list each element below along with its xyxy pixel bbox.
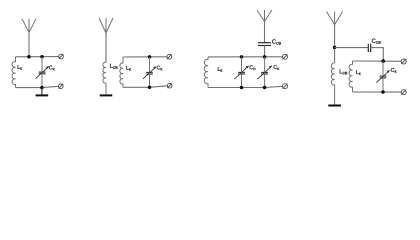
coupling coil Lsv (c4) — [331, 63, 334, 105]
inductor Lk (c2) — [120, 57, 123, 87]
wire: top rail (c1) — [16, 56, 59, 58]
antenna W3 (circuit 3) — [257, 10, 272, 22]
inductor Lk (c3) — [204, 57, 208, 88]
wire: antenna lead down (c4) — [334, 25, 336, 64]
coupling capacitor Csv (c3) — [258, 43, 271, 46]
label Cp (c3) — [250, 65, 256, 70]
output terminal bottom (c2) — [167, 83, 172, 88]
node: Cp top junction (c3) — [240, 55, 244, 59]
node: Ck bottom / ground junction (c1) — [40, 86, 44, 90]
variable capacitor Ck (c4) — [376, 70, 389, 82]
output terminal bottom (c1) — [58, 84, 63, 89]
node: Ck top junction (c2) — [148, 55, 152, 59]
coupling coil Lsv (c2) — [103, 62, 106, 94]
output terminal top (c2) — [167, 54, 172, 59]
node: Ck bottom junction (c4) — [381, 90, 385, 94]
wire: Ck bottom lead (c3) — [264, 74, 266, 88]
ground (c1) — [36, 88, 49, 96]
node: Ck top junction (c3) — [263, 55, 267, 59]
label Ck (c1) — [49, 66, 55, 71]
wire: Cp bottom lead (c3) — [241, 74, 243, 88]
wire: bottom rail to output (c3) — [265, 86, 283, 87]
wire: bottom rail (c3) — [208, 87, 265, 89]
wire: top rail (c3) — [208, 56, 283, 58]
wire: top rail (c4) — [353, 60, 402, 62]
wire: Csv to corner (c4) — [371, 47, 384, 49]
output terminal top (c1) — [59, 54, 64, 59]
variable capacitor Ck (c3) — [257, 66, 271, 79]
coupling capacitor Csv (c4) — [368, 44, 370, 52]
wire: antenna lead to Csv (c3) — [264, 22, 266, 43]
wire: Ck bottom lead (c4) — [382, 78, 384, 92]
label Csv (c4) — [372, 39, 381, 44]
wire: Csv leg down to top rail (c4) — [382, 48, 384, 61]
inductor Lk (c1) — [12, 57, 16, 88]
inductor Lk (c4) — [349, 61, 353, 92]
output terminal top (c4) — [401, 59, 406, 64]
wire: bottom rail (c4) — [353, 91, 402, 93]
wire: Ck top lead (c2) — [149, 57, 151, 72]
antenna W1 (circuit 1) — [22, 19, 36, 33]
wire: Ck top lead (c3) — [264, 57, 266, 72]
node: Ck top / Csv junction (c4) — [381, 59, 385, 63]
label Lsv (c2) — [110, 64, 117, 69]
ground (c4) — [328, 104, 341, 107]
wire: Ck top lead (c4) — [382, 61, 384, 76]
antenna W4 (circuit 4) — [327, 12, 343, 25]
output terminal bottom (c4) — [401, 90, 406, 95]
label Lk (c3) — [218, 67, 223, 72]
node: Ck top junction (c1) — [40, 55, 44, 59]
wire: bottom rail to output (c2) — [150, 86, 168, 88]
label Ck (c2) — [157, 66, 163, 71]
label Lk (c4) — [356, 70, 361, 75]
wire: Ck bottom lead (c1) — [41, 74, 43, 88]
wire: Csv to top rail (c3) — [264, 46, 266, 58]
wire: bottom rail to output (c1) — [42, 86, 59, 87]
variable capacitor Cp (c3) — [234, 66, 248, 79]
wire: Cp top lead (c3) — [241, 57, 243, 72]
wire: bottom rail left (c1) — [16, 87, 43, 89]
output terminal top (c3) — [283, 54, 288, 59]
output terminal bottom (c3) — [283, 84, 288, 89]
node: antenna junction on top rail (c1) — [27, 55, 31, 59]
antenna W2 (circuit 2) — [99, 18, 113, 33]
wire: antenna lead to Lsv (c2) — [105, 33, 107, 62]
node: Csv tap junction (c4) — [333, 46, 337, 50]
wire: bottom rail (c2) — [123, 86, 150, 88]
label Lsv (c4) — [340, 69, 347, 74]
wire: top rail (c2) — [123, 56, 167, 58]
label Csv (c3) — [272, 39, 281, 44]
node: Ck bottom junction (c3) — [263, 86, 267, 90]
wire: Ck bottom lead (c2) — [149, 74, 151, 87]
node: Ck bottom junction (c2) — [148, 86, 152, 90]
label Ck2 (c3) — [274, 65, 280, 70]
node: Cp bottom junction (c3) — [240, 86, 244, 90]
wire: tap to Csv (c4) — [335, 47, 369, 49]
wire: Ck top lead (c1) — [41, 57, 43, 72]
label Ck (c4) — [391, 68, 397, 73]
wire: antenna lead down (c1) — [28, 33, 30, 57]
variable capacitor Ck (c1) — [36, 66, 49, 78]
label Lk (c2) — [126, 66, 131, 71]
variable capacitor Ck (c2) — [143, 67, 156, 79]
label Lk (c1) — [18, 65, 23, 70]
ground (c2) — [100, 94, 113, 97]
